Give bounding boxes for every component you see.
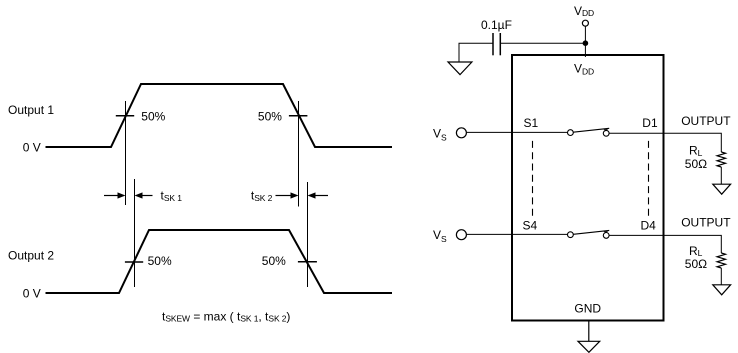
cursor line falling 50% Output 1 xyxy=(298,101,300,207)
svg-text:S4: S4 xyxy=(523,218,538,232)
wire GND pin to ground xyxy=(588,321,590,342)
svg-text:50Ω: 50Ω xyxy=(685,157,707,171)
wire D4 to output node 4 xyxy=(609,235,722,253)
wire capacitor to ground xyxy=(459,43,493,62)
svg-text:0 V: 0 V xyxy=(23,286,41,300)
svg-text:Output 1: Output 1 xyxy=(8,103,54,117)
ground (RL4) xyxy=(713,285,731,295)
wire capacitor to junction xyxy=(500,42,585,44)
cursor line falling 50% Output 2 xyxy=(307,182,309,287)
svg-text:OUTPUT: OUTPUT xyxy=(681,114,731,128)
dashed line D1..D4 xyxy=(648,141,650,217)
resistor RL1 xyxy=(717,152,725,167)
waveform Output 1 xyxy=(46,84,393,147)
wire VS4 to switch S4 xyxy=(467,233,568,235)
wire D1 to output node 1 xyxy=(609,133,722,152)
wire junction to box VDD pin xyxy=(584,43,586,57)
junction dot VDD xyxy=(583,40,589,46)
switch SW4 lever xyxy=(573,230,609,234)
svg-text:50%: 50% xyxy=(262,254,286,268)
svg-text:S1: S1 xyxy=(524,116,539,130)
terminal VDD xyxy=(582,20,588,26)
terminal VS input 4 xyxy=(456,230,466,240)
ground (RL1) xyxy=(713,184,731,194)
50% tick falling edge Output 2 xyxy=(298,261,317,263)
svg-text:50%: 50% xyxy=(141,110,165,124)
resistor RL4 xyxy=(717,253,725,268)
dashed line S1..S4 xyxy=(532,141,534,217)
terminal VS input 1 xyxy=(456,128,466,138)
svg-text:OUTPUT: OUTPUT xyxy=(681,215,731,229)
arrow right of tSK1 xyxy=(135,192,153,198)
switch SW4 pole xyxy=(568,232,574,238)
wire VS1 to switch S1 xyxy=(467,131,568,133)
ground (GND pin) xyxy=(578,341,600,352)
switch SW4 throw xyxy=(603,233,609,239)
svg-text:50%: 50% xyxy=(148,254,172,268)
50% tick falling edge Output 1 xyxy=(289,115,308,117)
switch SW1 lever xyxy=(573,128,609,132)
50% tick rising edge Output 2 xyxy=(125,261,143,263)
svg-text:Output 2: Output 2 xyxy=(8,249,54,263)
arrow left of tSK1 xyxy=(104,192,126,198)
switch SW1 throw xyxy=(603,130,609,136)
svg-text:D1: D1 xyxy=(642,116,658,130)
ground (capacitor) xyxy=(448,62,472,75)
capacitor C1 0.1uF xyxy=(493,33,500,55)
switch SW1 pole xyxy=(568,130,574,136)
cursor line rising 50% Output 2 xyxy=(134,179,136,287)
svg-text:0 V: 0 V xyxy=(23,140,41,154)
wire RL4 to ground xyxy=(720,268,722,285)
cursor line rising 50% Output 1 xyxy=(125,101,127,205)
arrow right of falling cursors xyxy=(308,192,329,198)
svg-text:50Ω: 50Ω xyxy=(685,257,707,271)
wire RL1 to ground xyxy=(720,167,722,184)
IC box xyxy=(512,55,664,321)
svg-text:D4: D4 xyxy=(641,218,657,232)
svg-text:50%: 50% xyxy=(258,110,282,124)
wire VDD terminal to junction xyxy=(584,27,586,44)
arrow left of falling cursors xyxy=(276,192,299,198)
50% tick rising edge Output 1 xyxy=(116,115,134,117)
waveform Output 2 xyxy=(46,230,393,293)
svg-text:GND: GND xyxy=(574,302,601,316)
svg-text:0.1µF: 0.1µF xyxy=(481,18,512,32)
